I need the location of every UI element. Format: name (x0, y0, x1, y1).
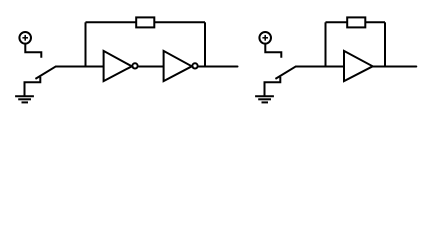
wire top left to resistor R1 (86, 21, 137, 23)
buffer U3 (344, 51, 373, 81)
wire feedback right vertical (204, 22, 206, 66)
wire from V2 to switch SW2 top throw (265, 44, 281, 58)
voltage source V1 (19, 32, 31, 44)
resistor R2 (347, 17, 365, 27)
wire feedback right vertical (384, 22, 386, 66)
wire from V1 to switch SW1 top throw (25, 44, 41, 58)
ground (255, 96, 274, 102)
wire resistor R1 to right vertical (154, 21, 205, 23)
wire from ground to switch SW2 bottom throw (265, 77, 281, 96)
wire feedback left vertical (node C) (325, 22, 327, 66)
wire inverter U1 to inverter U2 (139, 66, 164, 68)
switch SW2 lever (275, 66, 296, 79)
wire from ground to switch SW1 bottom throw (25, 77, 41, 96)
voltage source V2 (259, 32, 271, 44)
resistor R1 (136, 17, 154, 27)
wire output of U3 (node D) (373, 66, 417, 68)
inverter U2 (164, 51, 198, 81)
wire output of U2 (node B) (199, 66, 238, 68)
inverter U1 (104, 51, 138, 81)
ground (15, 96, 34, 102)
wire switch SW2 to buffer U3 input (296, 66, 345, 68)
wire switch SW1 to inverter U1 input (56, 66, 104, 68)
wire resistor R2 to right vertical (365, 21, 385, 23)
wire feedback left vertical (node A) (85, 22, 87, 66)
switch SW1 lever (35, 66, 56, 79)
wire top left to resistor R2 (326, 21, 348, 23)
